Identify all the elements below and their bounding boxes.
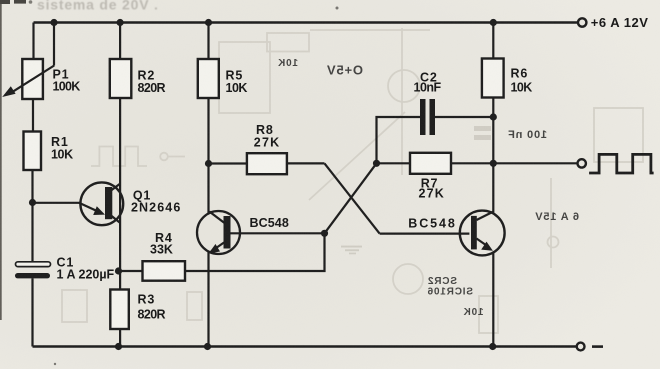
wire R7 node to R7 — [377, 162, 411, 164]
wire C2 left leg — [377, 117, 421, 163]
wire R2 branch from rail — [119, 23, 121, 60]
transistor Q3 BC548 — [460, 211, 505, 256]
node top rail P1 wiper — [50, 19, 57, 26]
wire left branch: rail to P1 — [32, 23, 34, 60]
resistor R8 — [247, 153, 287, 174]
resistor R1 — [24, 132, 42, 171]
terminal ground — [577, 343, 585, 351]
resistor R3 — [110, 290, 129, 330]
scan artifacts — [0, 0, 339, 365]
wire node A to C1 — [31, 203, 33, 262]
node C2 right at R6 wire — [490, 113, 497, 120]
transistor Q2 BC548 — [197, 211, 240, 254]
resistor R6 — [482, 59, 504, 98]
node R7 right at R6 wire — [490, 160, 497, 167]
potentiometer P1 wiper arrow — [12, 66, 54, 93]
node top rail R2 — [117, 19, 124, 26]
node top rail R6 — [490, 19, 497, 26]
wire R6 branch from rail — [492, 23, 494, 59]
wire R4 to Q2 base node — [185, 233, 325, 271]
wire node B to R4 — [119, 270, 143, 272]
wire P1 to R1 — [32, 99, 34, 132]
wire cross diagonal R8 to Q3 base — [325, 163, 380, 233]
wire R8 right to cross — [287, 162, 325, 164]
wire P1 wiper from rail node — [53, 23, 55, 66]
wire R7 right to R6 wire — [451, 162, 493, 164]
square wave symbol — [589, 154, 654, 173]
wire output line — [493, 162, 577, 164]
wire C1 to ground rail — [31, 278, 33, 346]
wire R5 branch from rail — [207, 23, 209, 60]
wire Q2 base line — [231, 232, 325, 234]
node A R1/C1/Q1 emitter — [29, 199, 36, 206]
wire node A to Q1 emitter — [33, 202, 81, 204]
wire R5 to Q2 collector — [207, 98, 209, 213]
wire Q3 emitter to ground rail — [492, 252, 494, 346]
resistor R4 — [143, 261, 186, 281]
wire Q3 base line — [380, 233, 470, 235]
wire R8 line from R5 wire — [209, 162, 247, 164]
label minus — [592, 345, 603, 348]
potentiometer P1 body — [22, 59, 43, 99]
capacitor C1 — [16, 262, 51, 267]
capacitor C2 — [420, 99, 426, 135]
node ground rail Q2 emitter — [204, 343, 211, 350]
wire R2 to Q1 base2 and base1 down to node B — [119, 98, 121, 271]
node top rail R5 — [205, 19, 212, 26]
node R7/C2 left — [373, 160, 380, 167]
wire R6 to Q3 collector — [492, 98, 494, 214]
resistor R7 — [410, 153, 451, 174]
wire bottom ground rail — [33, 345, 577, 347]
node ground rail Q3 emitter — [489, 343, 496, 350]
node R8 at R5 wire — [205, 160, 212, 167]
wire C2 right to R6 wire — [435, 116, 493, 118]
wire node B to R3 — [119, 271, 121, 290]
wire R1 to node A — [31, 170, 33, 203]
wire R3 to ground rail — [119, 329, 121, 347]
wire top supply rail — [34, 21, 579, 23]
resistor R5 — [198, 59, 219, 98]
wire cross diagonal Q2 base to R7 node — [325, 163, 377, 233]
terminal +V supply — [578, 18, 586, 26]
node ground rail R3 — [115, 343, 122, 350]
wire Q2 emitter to ground rail — [207, 252, 209, 347]
transistor Q1 2N2646 — [79, 182, 123, 225]
resistor R2 — [110, 59, 132, 98]
node Q2 base — [321, 230, 328, 237]
ghost layer (bleed-through from reverse page) — [62, 28, 643, 333]
terminal output — [578, 159, 586, 167]
node B R2/R3/R4 — [115, 267, 122, 274]
